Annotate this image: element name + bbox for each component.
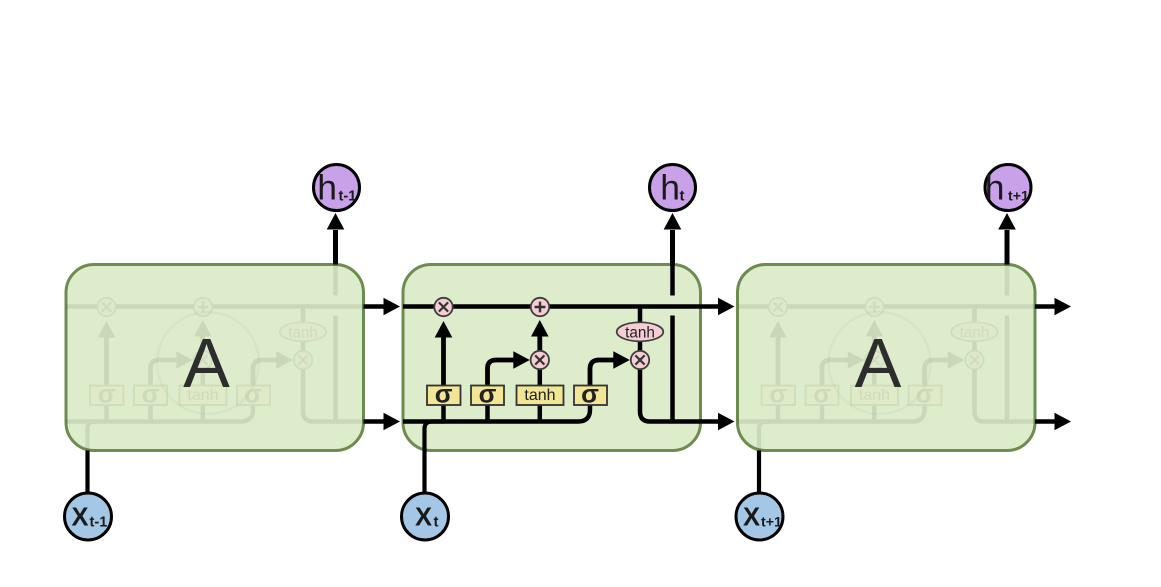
internals (full) middle cell (403, 265, 701, 452)
wire: x(t+1) up into cell (757, 451, 761, 494)
wire: cell-state arrow right->out (1035, 304, 1056, 309)
svg-text:X: X (415, 504, 432, 532)
svg-text:A: A (183, 324, 230, 402)
node h(t-1) (314, 165, 360, 211)
svg-text:t+1: t+1 (761, 514, 782, 530)
svg-text:A: A (855, 324, 902, 402)
LSTM cell A (t-1) box (66, 265, 364, 451)
wire: hidden-state arrow left->middle (364, 419, 386, 424)
wire: x(t) up into cell (422, 451, 426, 494)
svg-text:h: h (660, 168, 680, 208)
node x(t-1) (65, 493, 112, 540)
wire: cell-state arrow left->middle (364, 304, 386, 309)
wire: hidden-state arrow middle->right (701, 419, 720, 424)
wire: cell-state arrow middle->right (701, 304, 720, 309)
LSTM cell box (t) (403, 265, 701, 451)
ghost internals (faded) left cell (66, 265, 364, 452)
LSTM cell A (t+1) box (738, 265, 1036, 451)
svg-text:h: h (317, 168, 337, 208)
svg-text:t+1: t+1 (1008, 188, 1029, 204)
wire: arrow up to h(t+1) (1005, 230, 1010, 265)
svg-text:h: h (985, 168, 1005, 208)
wire: x(t-1) up into cell (85, 451, 89, 494)
svg-text:X: X (743, 504, 760, 532)
ghost loop circle left cell (157, 312, 259, 414)
node h(t) (650, 165, 696, 211)
wire: hidden-state arrow right->out (1035, 419, 1056, 424)
node x(t) (402, 493, 449, 540)
svg-text:X: X (71, 504, 88, 532)
wire: arrow up to h(t) (670, 230, 675, 265)
svg-text:t: t (434, 514, 439, 531)
node h(t+1) (985, 165, 1031, 211)
svg-text:t-1: t-1 (339, 188, 357, 204)
ghost internals (faded) right cell (738, 265, 1036, 452)
ghost loop circle right cell (829, 312, 931, 414)
svg-text:t-1: t-1 (90, 514, 108, 530)
svg-text:t: t (680, 187, 685, 204)
node x(t+1) (736, 493, 783, 540)
wire: arrow up to h(t-1) (333, 230, 338, 265)
